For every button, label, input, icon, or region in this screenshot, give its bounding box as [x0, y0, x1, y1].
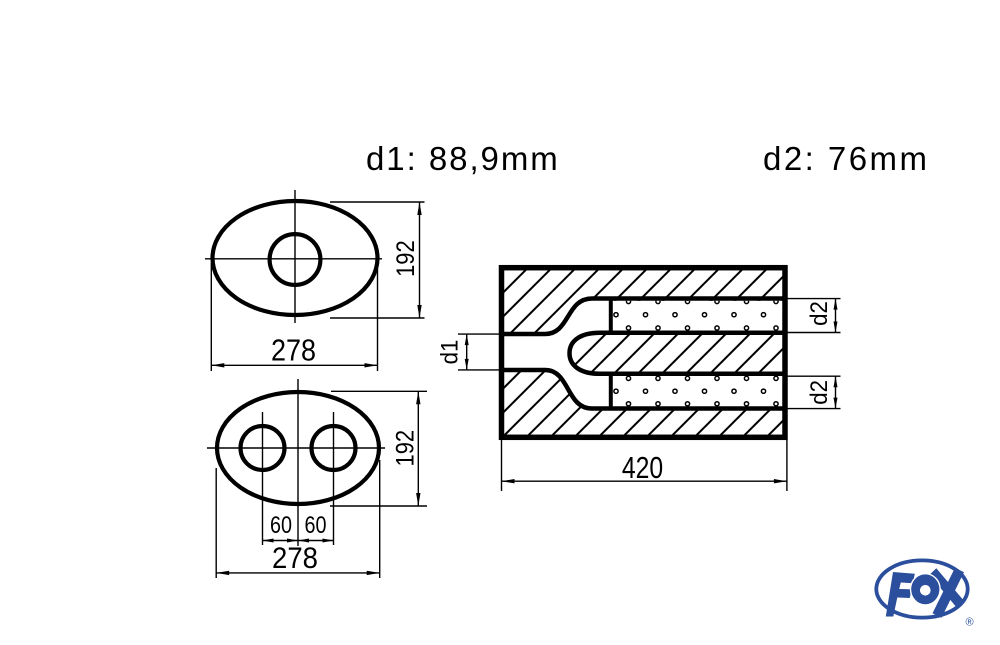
ext line d2b bottom [786, 408, 841, 410]
dim line 278 [216, 572, 380, 574]
ext line d2b top [786, 375, 841, 377]
letter O [911, 574, 941, 605]
white Y channel [502, 299, 611, 409]
right hole d2 [312, 426, 356, 470]
ext line 278 right [377, 269, 379, 371]
ext line d1 top [458, 333, 500, 335]
dim line 278 [211, 364, 377, 366]
svg-text:d2: 76mm: d2: 76mm [763, 140, 929, 177]
arrows 278 bottom figure [216, 571, 229, 575]
ext line 420 right [786, 440, 788, 491]
d2 bottom dimension [786, 376, 841, 408]
left hole d2 [241, 426, 285, 470]
svg-text:®: ® [965, 617, 973, 629]
horizontal centerline [207, 447, 385, 449]
arrows 420 [502, 479, 515, 483]
dim line d2b [835, 376, 837, 408]
perforation dots bottom pipe [614, 376, 778, 406]
svg-text:d2: d2 [806, 301, 833, 326]
ext line 192 bottom [330, 505, 427, 507]
letter F [886, 572, 915, 617]
svg-text:60: 60 [270, 512, 292, 539]
dim line 192 [419, 202, 421, 318]
oval body [213, 201, 378, 315]
svg-text:d1: d1 [436, 340, 463, 365]
arrows d2 top [834, 299, 838, 310]
svg-text:192: 192 [392, 240, 420, 277]
outer casing rectangle [502, 268, 786, 438]
white pipe interiors [611, 301, 783, 331]
vertical centerline [294, 190, 296, 323]
ext line d2t bottom [786, 332, 841, 334]
svg-text:192: 192 [392, 430, 420, 467]
ext line 420 left [501, 440, 503, 491]
right hole centerline [333, 412, 335, 545]
ext line d2t top [786, 298, 841, 300]
ext line 192 bottom [330, 317, 425, 319]
dim line d1 [466, 334, 468, 370]
ext line d1 bottom [458, 369, 500, 371]
svg-text:d2: d2 [806, 380, 833, 405]
inlet top wall + upper outer curve + top pipe top wall [502, 299, 783, 335]
ext line 192 top [330, 201, 425, 203]
svg-text:278: 278 [271, 332, 316, 367]
d2 top dimension [786, 299, 841, 333]
arrows 192 bottom figure [416, 391, 420, 404]
dim line d2t [835, 299, 837, 333]
dim line 420 [502, 480, 787, 482]
svg-text:d1: 88,9mm: d1: 88,9mm [366, 140, 561, 177]
horizontal centerline [205, 258, 382, 260]
arrows d2 bottom [834, 376, 838, 387]
svg-text:420: 420 [622, 450, 663, 485]
ext line 192 top [331, 390, 427, 392]
hatching [279, 260, 1000, 445]
ext line 278 left [210, 263, 212, 371]
inner hole d1 [270, 234, 321, 285]
perforation dots top pipe [614, 299, 778, 330]
inlet bottom wall + lower outer curve + bottom pipe bottom wall [502, 370, 783, 409]
perforation divider top [609, 299, 613, 333]
arrows 60-60 [263, 539, 274, 543]
left hole centerline [262, 412, 264, 545]
perforation divider bottom [609, 374, 613, 409]
420 dimension [502, 440, 787, 491]
logo ellipse [876, 560, 967, 617]
dim line 60 right [298, 540, 334, 542]
arrows 278 top figure [211, 363, 224, 367]
vertical centerline [297, 379, 299, 546]
pipe and channel outlines [502, 299, 783, 409]
oval body [217, 392, 379, 504]
svg-text:60: 60 [305, 512, 327, 539]
dim line 192 [417, 391, 419, 506]
svg-text:278: 278 [272, 542, 318, 575]
arrows 192 top figure [417, 202, 421, 215]
ext line 278 left [215, 468, 217, 578]
dim line 60 left [263, 540, 299, 542]
d1 dimension [458, 334, 500, 370]
tongue outline (top pipe bottom wall, tip, bottom pipe top wall) [570, 333, 784, 374]
letter X [930, 568, 965, 608]
ext line 278 right [379, 460, 381, 578]
arrows d1 [465, 334, 469, 345]
